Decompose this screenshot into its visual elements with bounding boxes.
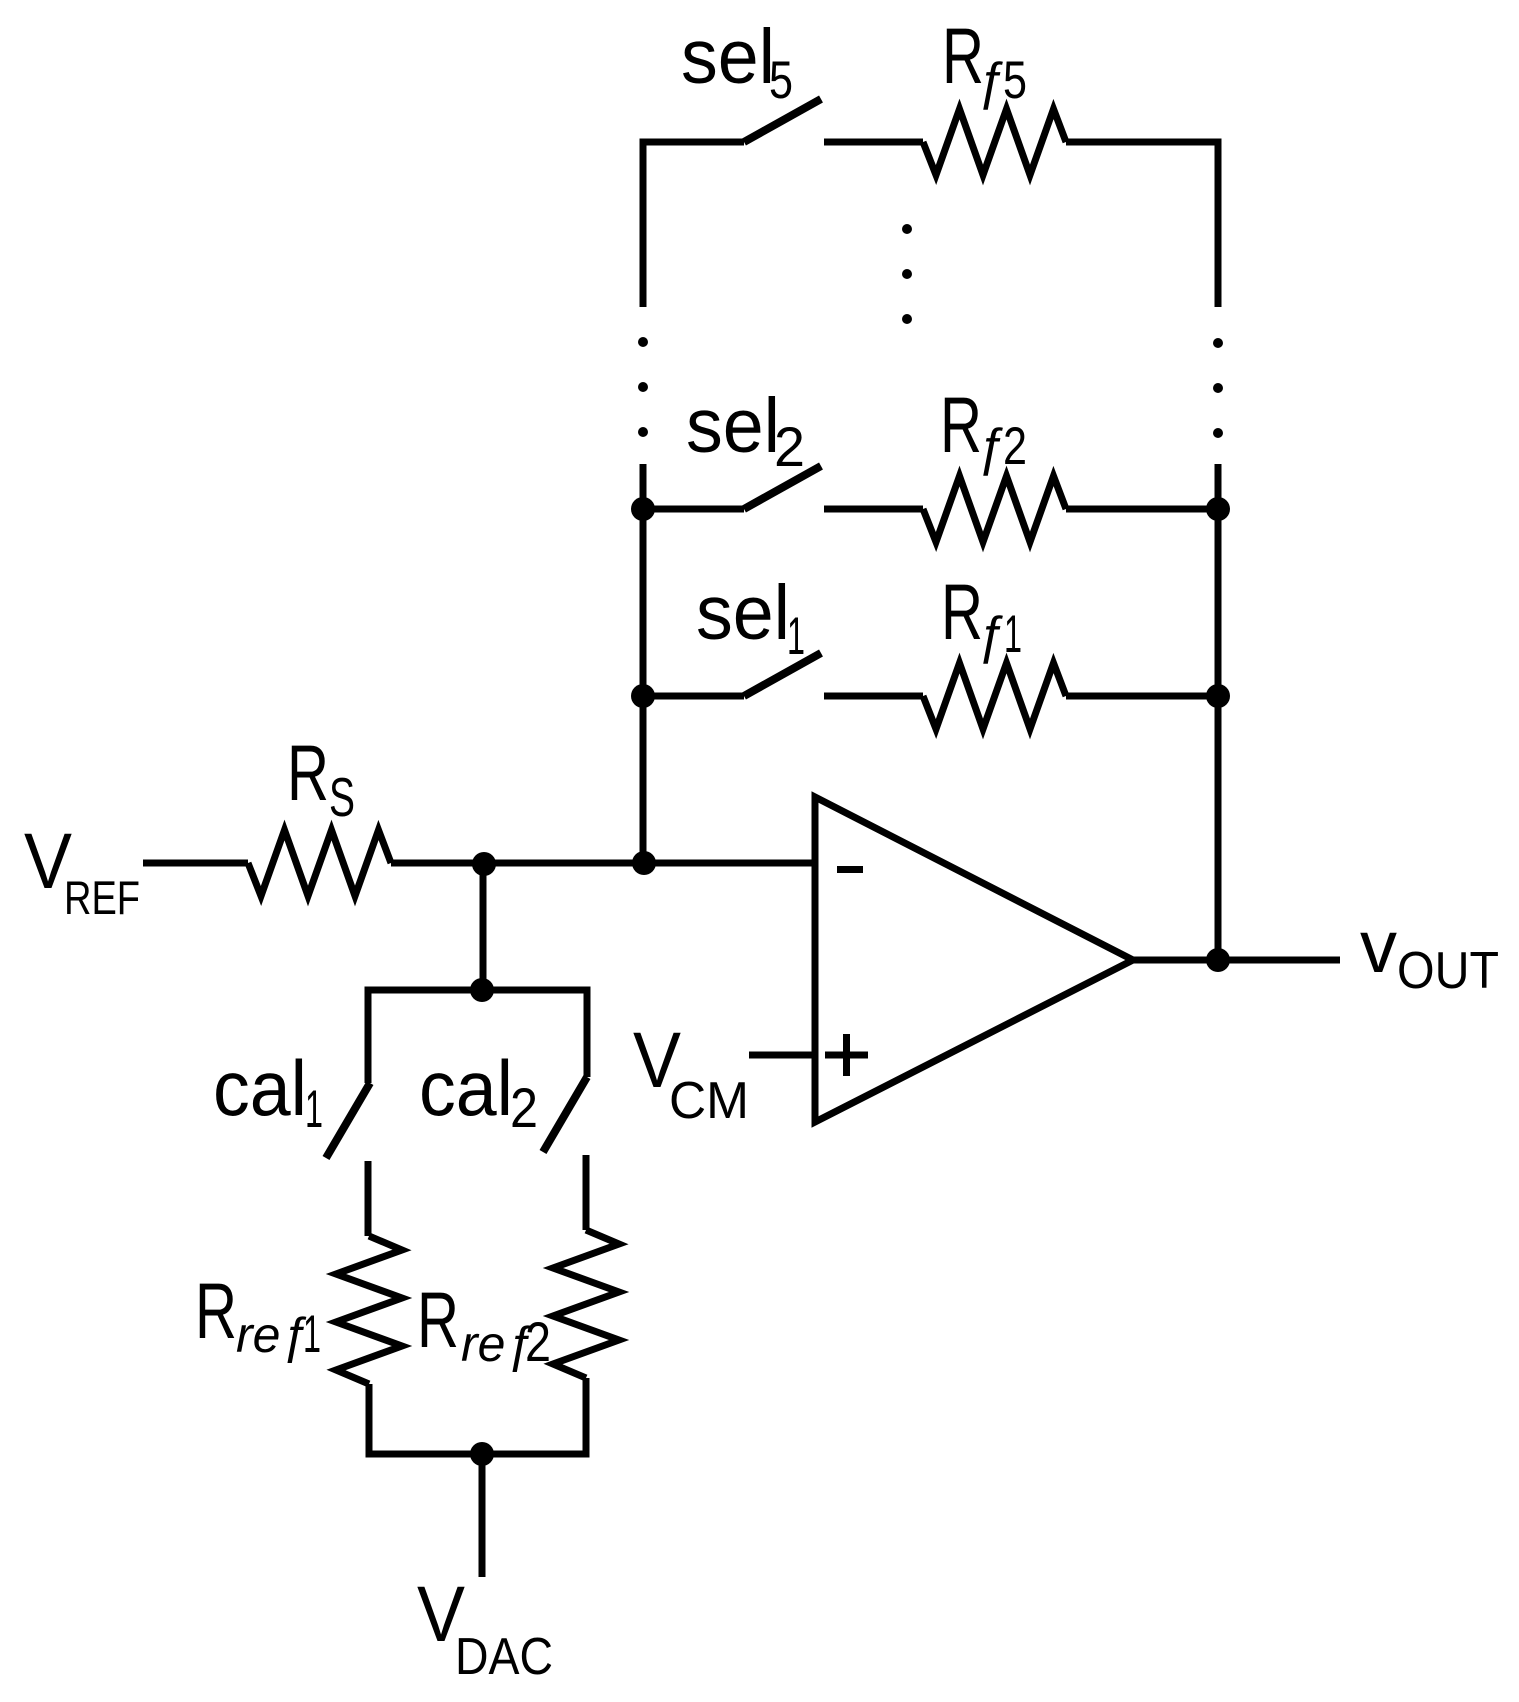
junction left rail to input wire [632, 851, 656, 875]
op-amp minus sign [837, 866, 863, 873]
resistor RS [248, 830, 391, 896]
wire Rf5 right [1066, 139, 1222, 146]
left rail ellipsis dots [638, 337, 648, 437]
junction left rail sel2 [631, 497, 655, 521]
junction right rail Rf1 [1206, 684, 1230, 708]
svg-text:1: 1 [305, 1080, 323, 1139]
label VREF [24, 816, 140, 924]
wire output [1133, 957, 1340, 964]
node A (summing node) [472, 852, 496, 876]
wire cal node rail [368, 990, 587, 1083]
label Rf5 [942, 11, 1027, 110]
wire left rail lower [640, 464, 647, 863]
label Rf1 [941, 567, 1022, 664]
svg-text:S: S [329, 766, 355, 828]
resistor Rf5 [923, 109, 1066, 175]
label Rref1 [195, 1266, 321, 1364]
svg-text:1: 1 [303, 1305, 321, 1364]
wire RS to op-amp inverting input [391, 860, 815, 867]
svg-text:1: 1 [787, 607, 805, 666]
wire sel5 left [643, 139, 744, 146]
svg-text:ƒ: ƒ [976, 606, 1005, 664]
label VDAC [417, 1569, 553, 1686]
resistor Rref2 [553, 1230, 619, 1378]
resistor Rf2 [923, 476, 1066, 542]
op-amp plus sign [825, 1034, 868, 1076]
resistor Rref1 [336, 1236, 402, 1384]
svg-text:R: R [417, 1275, 459, 1364]
junction right rail Rf2 [1206, 497, 1230, 521]
label vOUT [1360, 905, 1499, 1000]
label sel2 [686, 383, 805, 478]
op-amp U1 [815, 797, 1133, 1122]
right rail ellipsis dots [1213, 338, 1223, 438]
svg-text:sel: sel [686, 383, 780, 469]
label VCM [633, 1015, 749, 1130]
svg-text:OUT: OUT [1397, 942, 1499, 1000]
label sel5 [681, 14, 793, 110]
switch sel2 blade [744, 466, 821, 509]
wire Rf1 right [1066, 693, 1222, 700]
wire node A to cal node [480, 863, 487, 990]
wire Rf2 right [1066, 506, 1222, 513]
svg-text:2: 2 [525, 1310, 551, 1373]
switch sel1 blade [744, 653, 821, 696]
svg-text:2: 2 [774, 415, 805, 478]
svg-text:v: v [1360, 905, 1397, 988]
switch cal1 blade [326, 1083, 370, 1158]
junction left rail sel1 [631, 684, 655, 708]
svg-text:cal: cal [419, 1044, 513, 1132]
wire cal1 lower [365, 1161, 372, 1236]
wire sel2 left [643, 506, 744, 513]
svg-text:cal: cal [213, 1044, 307, 1132]
wire sel1 mid [824, 693, 923, 700]
wire left rail top [640, 139, 647, 308]
label sel1 [696, 570, 805, 666]
svg-text:5: 5 [1003, 51, 1027, 110]
svg-text:1: 1 [1004, 605, 1022, 664]
svg-text:reƒ: reƒ [236, 1307, 308, 1363]
label cal2 [419, 1044, 538, 1139]
resistor Rf1 [923, 663, 1066, 729]
node B (cal node) [470, 978, 494, 1002]
label RS [287, 728, 355, 828]
wire right rail top [1215, 139, 1222, 308]
wire cal2 lower [583, 1155, 590, 1230]
wire VREF lead [143, 860, 248, 867]
wire sel1 left [643, 693, 744, 700]
label cal1 [213, 1044, 323, 1139]
wire VCM to non-inverting input [749, 1052, 815, 1059]
svg-text:DAC: DAC [455, 1628, 553, 1686]
wire right rail lower [1215, 464, 1222, 960]
svg-text:sel: sel [681, 14, 775, 100]
svg-text:5: 5 [769, 51, 793, 110]
svg-text:reƒ: reƒ [461, 1316, 533, 1372]
svg-text:2: 2 [510, 1076, 538, 1139]
switch sel5 blade [744, 99, 821, 142]
svg-text:R: R [195, 1266, 237, 1355]
wire VDAC stem [479, 1454, 486, 1577]
wire sel5 mid [824, 139, 923, 146]
wire bottom rail [369, 1378, 586, 1454]
middle ellipsis dots [902, 224, 912, 324]
svg-text:sel: sel [696, 570, 790, 656]
switch cal2 blade [543, 1077, 587, 1152]
svg-text:ƒ: ƒ [976, 52, 1005, 110]
wire sel2 mid [824, 506, 923, 513]
svg-text:2: 2 [1003, 417, 1027, 476]
node VDAC junction [470, 1442, 494, 1466]
svg-text:ƒ: ƒ [976, 418, 1005, 476]
label Rref2 [417, 1275, 551, 1373]
node output junction [1206, 948, 1230, 972]
svg-text:REF: REF [64, 871, 140, 924]
svg-text:R: R [287, 728, 329, 817]
svg-text:CM: CM [669, 1072, 749, 1130]
label Rf2 [940, 380, 1027, 476]
